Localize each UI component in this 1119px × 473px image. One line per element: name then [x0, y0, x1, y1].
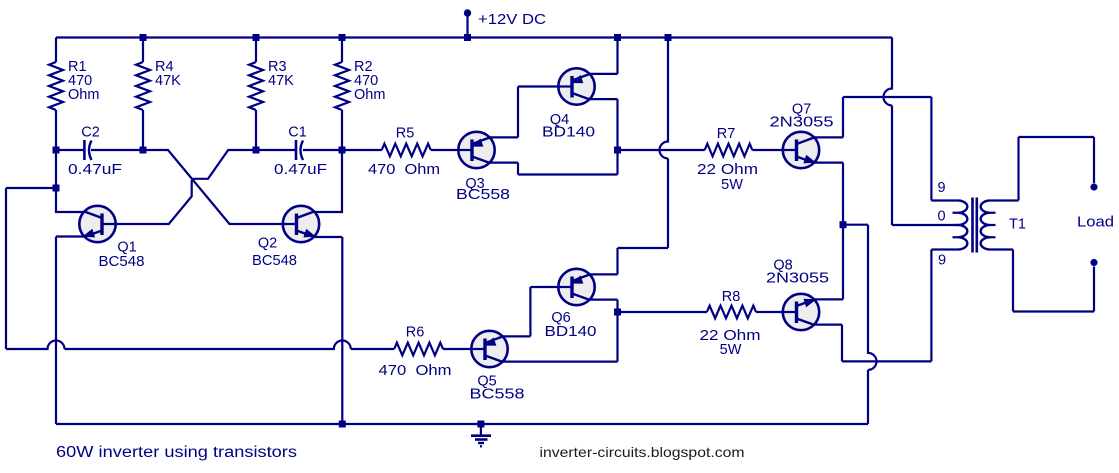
svg-text:Load: Load: [1077, 215, 1114, 231]
wire R6 to Q5 base: [443, 348, 471, 350]
transformer T1 primary winding: [953, 201, 968, 250]
svg-text:Ohm: Ohm: [354, 87, 385, 103]
wire R3 top: [255, 38, 257, 63]
label Q1 part: [99, 254, 145, 270]
wire Q5 emitter to Q6 base: [503, 287, 559, 336]
svg-text:R5: R5: [396, 126, 415, 142]
wire node to R7: [618, 149, 705, 151]
label T1: [1009, 217, 1026, 233]
svg-text:Q2: Q2: [258, 236, 277, 252]
node load bottom terminal: [1090, 259, 1097, 266]
svg-text:Ohm: Ohm: [68, 87, 99, 103]
svg-text:+12V DC: +12V DC: [478, 11, 546, 28]
wire R8 to Q8 base: [756, 311, 783, 313]
node Q1 feedback junction: [53, 185, 60, 192]
svg-text:C2: C2: [81, 125, 100, 141]
wire C1 right: [303, 149, 342, 151]
wire cross A to Q2 base: [143, 150, 283, 224]
svg-text:470 Ohm: 470 Ohm: [379, 363, 452, 379]
label C2: [81, 125, 100, 141]
wire +12V top rail: [56, 36, 892, 38]
svg-text:C1: C1: [288, 125, 307, 141]
resistor R4: [136, 62, 150, 110]
label credit: [540, 444, 745, 460]
label R1 value: [68, 59, 99, 103]
node ground junction: [477, 421, 484, 428]
transistor Q1: [79, 206, 115, 242]
wire R5 left: [342, 149, 382, 151]
wire R4 bottom: [142, 110, 144, 150]
label Load: [1077, 215, 1114, 231]
label Q3: [465, 176, 484, 192]
wire feedback line with hops: [6, 341, 394, 350]
label Q5: [477, 374, 496, 390]
wire +12V stub: [466, 14, 468, 38]
capacitor C2: [84, 140, 91, 160]
svg-text:BC548: BC548: [99, 254, 145, 270]
svg-text:470 Ohm: 470 Ohm: [368, 162, 440, 178]
wire R1 bottom: [55, 110, 57, 150]
label R4 value: [155, 59, 181, 89]
label Q6 part: [545, 324, 597, 340]
wire Q7 emitter: [815, 163, 844, 300]
svg-text:5W: 5W: [720, 342, 742, 358]
node C1-R3 junction: [253, 147, 260, 154]
svg-text:BC548: BC548: [252, 253, 297, 269]
wire Q3 collector: [490, 150, 618, 175]
svg-text:inverter-circuits.blogspot.com: inverter-circuits.blogspot.com: [540, 444, 745, 460]
label Q8 part: [766, 271, 829, 287]
wire R7 to Q7 base: [752, 149, 783, 151]
label Q4: [550, 112, 569, 128]
transistor Q8: [783, 294, 819, 330]
svg-text:0.47uF: 0.47uF: [68, 162, 122, 178]
svg-text:T1: T1: [1009, 217, 1026, 233]
label pin 9 bottom: [938, 253, 946, 269]
svg-text:47K: 47K: [268, 73, 294, 89]
node Q2 emitter rail junction: [339, 421, 346, 428]
wire node to R8: [618, 311, 707, 313]
node C2-R4 junction: [140, 147, 147, 154]
resistor R1: [49, 62, 63, 110]
resistor R6: [394, 343, 443, 356]
wire Q6 emitter riser: [590, 248, 668, 274]
wire Q3 emitter to Q4 base: [490, 87, 559, 138]
wire Q7 collector: [815, 97, 932, 137]
wire Q4 emitter to rail: [590, 38, 618, 74]
label Q2: [258, 236, 277, 252]
svg-text:BC558: BC558: [470, 387, 525, 403]
svg-text:0: 0: [937, 209, 945, 225]
wire secondary bottom to load: [990, 250, 1095, 312]
transistor Q6: [558, 269, 594, 305]
wire Q2 emitter: [315, 237, 342, 424]
label title: [56, 444, 297, 461]
label R8 value: [700, 328, 761, 344]
svg-text:22 Ohm: 22 Ohm: [697, 162, 758, 178]
label C2 value: [68, 162, 122, 178]
label R3 value: [268, 59, 294, 89]
node C2-R1 junction: [53, 147, 60, 154]
label Q6: [551, 310, 570, 326]
node +12V rail junction: [464, 34, 471, 41]
node C1-R2 junction: [339, 147, 346, 154]
node Q3-Q4 output junction: [614, 147, 621, 154]
wire emitter node to ground with hop: [843, 225, 877, 424]
transistor Q7: [783, 132, 819, 168]
label pin 9 top: [937, 180, 945, 196]
svg-text:BD140: BD140: [545, 324, 597, 340]
svg-text:2N3055: 2N3055: [766, 271, 829, 287]
transistor Q3: [458, 132, 494, 168]
wire R5 to Q3 base: [431, 149, 459, 151]
svg-text:9: 9: [938, 253, 946, 269]
wire ground rail: [56, 423, 868, 425]
svg-text:R7: R7: [717, 126, 736, 142]
wire Q5 collector: [503, 312, 618, 362]
label C1: [288, 125, 307, 141]
wire Q6 collector: [590, 300, 618, 312]
label R7 wattage: [721, 177, 743, 193]
transformer T1 secondary winding: [981, 201, 996, 250]
label Q7 part: [770, 115, 834, 131]
label R6: [406, 325, 425, 341]
wire R3 bottom: [255, 110, 257, 150]
label Q4 part: [542, 125, 595, 141]
label R7: [717, 126, 736, 142]
resistor R3: [249, 62, 263, 110]
label R5: [396, 126, 415, 142]
svg-text:9: 9: [937, 180, 945, 196]
wire R2 top: [341, 38, 343, 63]
wire primary bottom terminal: [931, 250, 958, 362]
capacitor C1: [296, 140, 303, 160]
label Q2 part: [252, 253, 297, 269]
wire Q1 collector: [56, 150, 84, 212]
resistor R8: [707, 306, 756, 319]
node Q4 rail junction: [614, 34, 621, 41]
node R4 top junction: [140, 34, 147, 41]
svg-text:R8: R8: [722, 289, 741, 305]
resistor R2: [335, 62, 349, 110]
label R7 value: [697, 162, 758, 178]
label Q8: [773, 258, 792, 274]
label Q3 part: [456, 187, 510, 203]
wire R4 top: [142, 38, 144, 63]
label +12V DC: [478, 11, 546, 28]
wire C1 left: [256, 149, 296, 151]
wire Q1 emitter: [56, 237, 84, 425]
label pin 0 centre: [937, 209, 945, 225]
label R8 wattage: [720, 342, 742, 358]
wire C2 left: [56, 149, 84, 151]
label R2 value: [354, 59, 385, 103]
transistor Q5: [471, 331, 507, 367]
node R2 top junction: [339, 34, 346, 41]
label C1 value: [274, 162, 327, 178]
wire C2 right: [91, 149, 143, 151]
resistor R7: [705, 144, 753, 157]
svg-text:5W: 5W: [721, 177, 743, 193]
label R8: [722, 289, 741, 305]
label Q1: [117, 240, 136, 256]
resistor R5: [382, 144, 431, 157]
node +12V terminal: [464, 9, 471, 16]
transistor Q4: [558, 68, 594, 104]
wire rail to centre tap with hop: [884, 38, 959, 226]
wire Q2 collector: [315, 150, 342, 212]
wire secondary top to load: [990, 137, 1095, 201]
transistor Q2: [283, 206, 319, 242]
node load top terminal: [1090, 183, 1097, 190]
svg-text:60W inverter using transistors: 60W inverter using transistors: [56, 444, 297, 461]
wire feedback left vertical: [5, 188, 7, 349]
ground: [471, 424, 491, 446]
transformer T1 core: [973, 198, 977, 253]
svg-text:BC558: BC558: [456, 187, 510, 203]
wire cross B to Q1 base: [116, 150, 256, 224]
node Q7-Q8 emitter junction: [840, 221, 847, 228]
wire R1 top: [55, 38, 57, 63]
wire R2 bottom: [341, 110, 343, 150]
label R5 value: [368, 162, 440, 178]
svg-text:47K: 47K: [155, 73, 181, 89]
wire Q6 emitter rail riser with hop: [660, 38, 669, 249]
label Q7: [792, 102, 811, 118]
wire primary top terminal: [931, 97, 958, 201]
wire Q8 collector to transformer: [815, 325, 932, 362]
svg-text:2N3055: 2N3055: [770, 115, 834, 131]
svg-text:0.47uF: 0.47uF: [274, 162, 327, 178]
node R3 top junction: [253, 34, 260, 41]
node rail junction x668: [665, 34, 672, 41]
node Q5-Q6 output junction: [614, 309, 621, 316]
svg-text:R6: R6: [406, 325, 425, 341]
svg-text:BD140: BD140: [542, 125, 595, 141]
wire feedback left link: [6, 187, 56, 189]
label Q5 part: [470, 387, 525, 403]
label R6 value: [379, 363, 452, 379]
wire Q4 collector: [590, 99, 618, 150]
